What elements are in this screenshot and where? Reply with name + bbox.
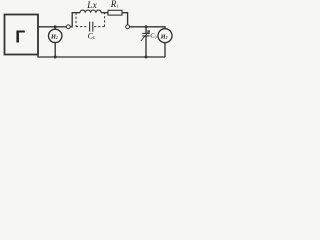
wire: bottom lead of C0 to rail [145,36,147,57]
resistor R1 [108,10,122,15]
wire: coil to resistor [101,12,108,14]
svg-text:Г: Г [15,26,25,46]
capacitor CL plates [90,22,93,32]
wire: generator output to left terminal [38,26,66,28]
terminal jack (right, open circle) [126,25,130,29]
inductor Lx (4 humps) [80,10,101,13]
meter U2 (circle) [158,29,172,43]
meter U1 (circle) [49,29,62,42]
junction dot on bottom rail under I1 [54,56,57,59]
terminal jack (left, open circle) [66,25,70,29]
generator box G [5,15,39,55]
wire: resistor down to right terminal [122,13,128,25]
wire: meter I2 bottom stub [164,43,166,57]
bottom rail wire [38,55,165,58]
capacitor C0 variable arrow [141,31,150,41]
junction dot above meter I1 [54,25,57,28]
wire: right terminal to meter I2 top [130,27,165,29]
junction dot above C0 [145,25,148,28]
wire: stub from top wire down to meter I1 [54,27,56,29]
wire: top lead of C0 [145,27,147,33]
capacitor CL dashed left lead [76,13,88,27]
wire: meter I1 bottom stub to ground rail [54,43,56,57]
junction dot on rail under C0 [145,56,148,59]
wire: left terminal up to coil [70,13,80,27]
svg-text:Lx: Lx [86,0,97,10]
capacitor C0 plates [142,33,149,36]
capacitor CL dashed right lead [94,13,105,27]
